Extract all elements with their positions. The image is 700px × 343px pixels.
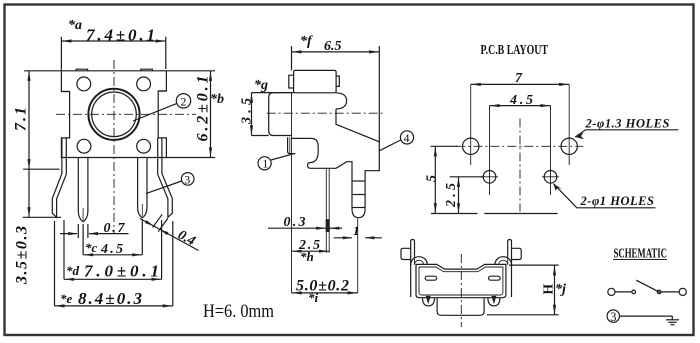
- arrow 7.0 left: [64, 278, 74, 281]
- bfv body inner: [419, 267, 503, 295]
- ext leg left edge: [77, 224, 79, 238]
- svg-text:*i: *i: [308, 290, 319, 305]
- clip left outer arc: [411, 257, 428, 265]
- svg-text:0.3: 0.3: [284, 215, 306, 230]
- arrow 0.3 left-pointing: [330, 227, 340, 230]
- arrow 7.1 top: [27, 71, 30, 81]
- svg-text:*e: *e: [60, 291, 73, 306]
- dim 2.5 line: [292, 250, 330, 252]
- svg-text:6.5: 6.5: [324, 39, 342, 54]
- ext leg center: [82, 224, 84, 255]
- leader to circle 1: [271, 153, 296, 160]
- dim 2.5 ext top: [450, 176, 484, 178]
- svg-text:*f: *f: [300, 34, 313, 49]
- hole 1.3 right: [561, 138, 577, 154]
- hole 1 left: [483, 171, 496, 184]
- face line / extension vertical: [291, 93, 293, 293]
- svg-text:7: 7: [515, 71, 523, 86]
- button inner circle: [92, 92, 137, 137]
- dim 2.5 pcb line: [458, 177, 460, 214]
- svg-text:4: 4: [404, 131, 410, 145]
- dim 0.7 line right part: [89, 233, 129, 235]
- clip right inner vertical: [507, 256, 509, 264]
- svg-text:8.4±0.3: 8.4±0.3: [78, 289, 143, 308]
- svg-text:*c: *c: [85, 240, 98, 255]
- dim 6.5 line: [292, 51, 380, 53]
- body top line left of cap: [252, 92, 294, 94]
- clip strap right: [508, 240, 512, 257]
- schematic balloon 3: [607, 310, 619, 322]
- arrow 7 pcb right: [559, 83, 569, 86]
- bfv body outer: [416, 264, 506, 297]
- arrow H bottom: [553, 305, 556, 315]
- ext bent right center: [172, 221, 174, 306]
- ext outer right upper center: [161, 220, 163, 279]
- right leg tick 1: [352, 180, 365, 182]
- dim 7.0 line: [64, 278, 162, 280]
- arrow 7.4 right: [156, 39, 166, 42]
- 0.4 slash 2: [158, 218, 168, 231]
- small hole htick right: [542, 176, 559, 178]
- svg-text:*h: *h: [300, 249, 314, 264]
- svg-text:*b: *b: [210, 92, 224, 107]
- pcb centerline horizontal: [456, 145, 583, 147]
- arrow 3.5g bottom: [250, 125, 253, 135]
- arrow 2.5 pcb top: [457, 177, 460, 187]
- svg-text:H=6. 0mm: H=6. 0mm: [203, 301, 274, 322]
- H dim line: [554, 265, 556, 315]
- cap tab left: [289, 75, 294, 88]
- dim 7 line: [471, 83, 570, 85]
- svg-text:5: 5: [425, 175, 440, 182]
- right leg tick 3: [352, 207, 365, 209]
- arrow 7 pcb left: [471, 83, 481, 86]
- schematic wire left: [615, 291, 632, 293]
- dim 3.5 line left: [28, 169, 30, 217]
- cap rect: [294, 70, 337, 92]
- dim 6.5 ext left: [291, 46, 293, 70]
- H ext bottom: [487, 314, 559, 316]
- balloon circle 3: [181, 173, 194, 186]
- svg-text:H: H: [541, 284, 556, 295]
- arrow 2.5 right: [319, 250, 329, 253]
- svg-text:*d: *d: [66, 263, 80, 278]
- ext line at left leg tip: [23, 216, 61, 218]
- arrow 5.0 left: [292, 291, 302, 294]
- arrow 4.5 right: [132, 253, 142, 256]
- svg-text:*g: *g: [254, 78, 268, 93]
- button side profile: [269, 93, 292, 136]
- bfv centerline: [460, 254, 462, 327]
- dim 5 line: [434, 146, 436, 213]
- hole 1 right: [544, 171, 557, 184]
- dim 4.5 line: [83, 254, 142, 256]
- peg inner line: [289, 137, 291, 153]
- arrow 8.4 left: [55, 304, 65, 307]
- svg-text:P.C.B LAYOUT: P.C.B LAYOUT: [481, 43, 549, 58]
- thin leg crimp solid: [326, 219, 330, 232]
- locating peg: [288, 137, 294, 153]
- dim 0.7 line left part: [60, 233, 77, 235]
- arrow leader 1.3 holes: [575, 132, 584, 139]
- arrow 8.4 right: [163, 304, 173, 307]
- schematic case wire: [620, 315, 673, 317]
- svg-text:2: 2: [180, 94, 186, 108]
- arrow 2.5 pcb bottom: [457, 203, 460, 213]
- H ext top: [509, 264, 559, 266]
- clip right outer vertical: [511, 256, 513, 297]
- dim 4.5 pcb line: [490, 105, 551, 107]
- arrow 0.3 right-pointing: [316, 227, 326, 230]
- leader 1.3 holes: [575, 130, 678, 137]
- ground stem: [671, 316, 673, 320]
- arrowheads: [27, 39, 584, 314]
- arrow 7.4 left: [62, 39, 72, 42]
- clip right outer arc: [495, 257, 512, 265]
- clip tab right: [512, 248, 522, 259]
- dim 6.2 line: [210, 71, 212, 158]
- corner rivet circle bottom-left: [77, 139, 91, 153]
- arrow 5 bottom: [434, 203, 437, 213]
- schematic contact right: [657, 290, 661, 294]
- ext bent left center: [54, 221, 56, 306]
- clip left outer vertical: [410, 256, 412, 297]
- bfv slot left: [425, 276, 437, 280]
- leader to circle 2: [133, 104, 177, 121]
- pcb centerline vertical: [519, 119, 521, 212]
- right leg tick 2: [352, 194, 365, 196]
- dim 6.2 ext bottom: [166, 157, 215, 159]
- svg-text:3: 3: [610, 310, 616, 324]
- arrow 4.5 pcb right: [540, 104, 550, 107]
- 3.5 ext bottom: [252, 135, 269, 137]
- centerline horizontal front view: [56, 113, 196, 115]
- dim 6.2 ext top: [166, 70, 215, 72]
- thin leg right edge: [328, 168, 330, 253]
- arrow 6.2 bottom: [209, 147, 212, 157]
- dim 7.1 ext top: [24, 70, 61, 72]
- clip left point: [426, 296, 431, 304]
- centerline vertical front view: [113, 60, 115, 233]
- arrow 4.5 left: [84, 253, 94, 256]
- balloon circle 1: [258, 157, 271, 170]
- balloon circle 4: [400, 131, 413, 144]
- ground bar 3: [671, 324, 675, 326]
- schematic lever: [636, 280, 661, 293]
- ext right inner leg center: [141, 220, 143, 255]
- arrow 6.2 top: [209, 71, 212, 81]
- arrow 1 left: [343, 236, 353, 239]
- arrow 6.5 left: [292, 50, 302, 53]
- small hole htick left: [481, 176, 498, 178]
- outer leg right: [158, 138, 173, 217]
- clip bump right of cap: [336, 93, 347, 109]
- dim 6.5 ext right: [378, 46, 380, 142]
- clip right point: [491, 296, 496, 304]
- 0.4 leader: [140, 219, 199, 251]
- clip left lower arc: [423, 298, 435, 306]
- bfv slot right: [489, 276, 501, 280]
- schematic terminal right outer: [679, 288, 686, 295]
- inner leg right crease: [141, 204, 143, 216]
- body right inset edge: [158, 90, 166, 92]
- arrow 3.5 bottom-left-view: [27, 207, 30, 217]
- svg-text:4.5: 4.5: [509, 93, 533, 108]
- arrow 7.0 right: [152, 278, 162, 281]
- thin leg left edge: [325, 168, 327, 253]
- hole ext left small: [489, 106, 491, 195]
- schematic underline: [613, 259, 667, 261]
- arrow 0.4 upper: [145, 220, 154, 226]
- svg-text:0.7: 0.7: [104, 221, 126, 236]
- dim 0.3 right tail: [330, 227, 343, 229]
- inner leg left crease: [82, 208, 84, 220]
- dim 1 left tail: [334, 237, 352, 239]
- arrow 0.7 right: [88, 232, 98, 235]
- top tab right: [141, 69, 153, 71]
- dim 7.4 line: [61, 40, 165, 42]
- svg-text:3.5: 3.5: [240, 98, 255, 125]
- arrow 0.4 lower: [160, 229, 169, 235]
- hole ext left big: [470, 84, 472, 165]
- hole ext right small: [550, 106, 552, 195]
- dim 7.4 extension left: [60, 37, 62, 71]
- dim 3.5 side line: [251, 93, 253, 136]
- side centerline: [267, 112, 384, 114]
- clip right lower arc: [488, 298, 500, 306]
- svg-text:4.5: 4.5: [100, 242, 123, 257]
- body left inset edge: [61, 91, 69, 93]
- arrow 5 top: [434, 147, 437, 157]
- arrow 6.5 right: [369, 50, 379, 53]
- ground bar 1: [666, 319, 679, 321]
- corner rivet circle top-left: [77, 77, 91, 91]
- pcb bottom ref line: [431, 213, 558, 215]
- hole 1.3 left: [463, 138, 479, 154]
- corner rivet circle bottom-right: [137, 139, 151, 153]
- dim 7.1 line: [28, 71, 30, 169]
- leader to circle 3: [146, 181, 182, 194]
- balloon circle 2: [176, 94, 190, 108]
- leader 1 holes: [554, 184, 656, 208]
- outer leg left: [52, 138, 66, 217]
- svg-text:5.0±0.2: 5.0±0.2: [296, 278, 349, 295]
- dim 8.4 line: [55, 305, 173, 307]
- arrow 4.5 pcb left: [490, 104, 500, 107]
- clip right inner arc: [499, 260, 508, 265]
- inner leg left: [78, 158, 88, 222]
- svg-text:3: 3: [184, 172, 190, 186]
- bfv button: [437, 298, 484, 316]
- svg-text:1: 1: [262, 157, 268, 171]
- svg-text:*j: *j: [555, 282, 566, 297]
- svg-text:3.5±0.3: 3.5±0.3: [14, 226, 31, 285]
- ext outer left upper center: [63, 220, 65, 279]
- corner rivet circle top-right: [137, 77, 151, 91]
- button outer circle: [88, 89, 139, 140]
- schematic wire right: [661, 291, 679, 293]
- hole ext right big: [568, 84, 570, 165]
- clip strap left: [411, 240, 415, 257]
- 0.4 slash 1: [153, 214, 163, 227]
- clip left inner arc: [414, 260, 423, 265]
- dim 7.4 extension right: [165, 37, 167, 69]
- arrow 3.5g top: [250, 93, 253, 103]
- ext leg right edge: [87, 224, 89, 238]
- ext line at leg exit left: [23, 168, 60, 170]
- schematic terminal left outer: [608, 288, 615, 295]
- ground bar 2: [668, 321, 676, 323]
- svg-text:*a: *a: [68, 18, 82, 33]
- front view body outline: [61, 71, 166, 158]
- dim 5 ext top: [431, 145, 459, 147]
- dim 0.3 line: [268, 227, 326, 229]
- arrow 1 right: [365, 236, 375, 239]
- cap tab right: [336, 76, 339, 86]
- arrow 2.5 left: [292, 250, 302, 253]
- right leg extension below: [357, 219, 359, 293]
- clip tab left: [401, 248, 411, 259]
- arrow 0.7 left: [68, 232, 78, 235]
- inner leg right: [138, 158, 147, 218]
- arrow 7.1 bottom: [27, 159, 30, 169]
- dim 5.0 line: [292, 292, 358, 294]
- lobe and lower outline to right leg: [292, 109, 380, 218]
- clip left inner vertical: [414, 256, 416, 264]
- svg-text:1: 1: [353, 223, 360, 238]
- top tab left: [76, 69, 87, 71]
- svg-text:2-φ1 HOLES: 2-φ1 HOLES: [580, 194, 655, 208]
- svg-text:2.5: 2.5: [444, 183, 459, 208]
- leader to circle 4: [379, 140, 400, 151]
- svg-text:7.1: 7.1: [13, 107, 30, 131]
- schematic contact left: [632, 290, 636, 294]
- svg-text:2-φ1.3 HOLES: 2-φ1.3 HOLES: [585, 117, 670, 131]
- arrow 5.0 right: [348, 291, 358, 294]
- arrow H top: [553, 266, 556, 276]
- arrow leader 1 holes: [554, 184, 562, 191]
- dim 1 right tail: [365, 237, 382, 239]
